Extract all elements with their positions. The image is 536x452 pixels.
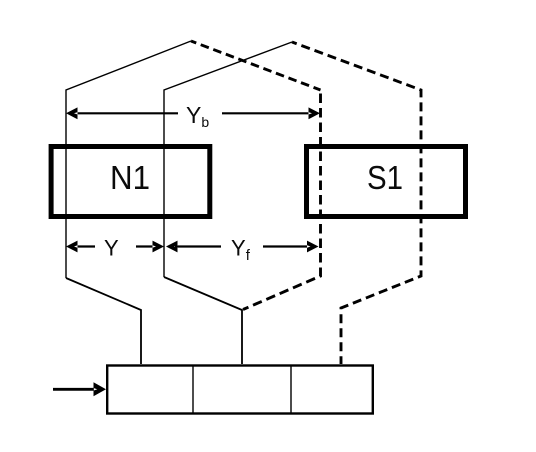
input arrow head	[94, 382, 107, 396]
wire coil2 front lead to commutator	[164, 277, 242, 364]
commutator segment divider 2	[290, 366, 292, 414]
wire coil1 back vertical and bottom diagonal (dashed)	[243, 90, 321, 310]
svg-text:N1: N1	[110, 159, 150, 196]
dimension arrow Y shaft right	[136, 245, 158, 247]
dimension arrow Y right head	[153, 241, 165, 253]
dimension arrow Yf shaft left	[175, 245, 221, 247]
input arrow shaft	[53, 388, 97, 391]
wire coil1 back top diagonal (dashed)	[191, 41, 321, 90]
dimension arrow Yb shaft left	[74, 112, 178, 114]
dimension arrow Yf right head	[307, 241, 319, 253]
pole S1 box	[307, 147, 466, 217]
dimension arrow Y left head	[66, 241, 78, 253]
dimension arrow Yb shaft right	[222, 112, 312, 114]
dimension arrow Y shaft left	[72, 245, 95, 247]
dimension arrow Yf left head	[166, 241, 178, 253]
svg-text:Yf: Yf	[231, 236, 251, 265]
svg-text:Yb: Yb	[186, 102, 209, 130]
wire coil1 front lead to commutator	[66, 278, 141, 364]
svg-text:Y: Y	[104, 236, 119, 261]
pole N1 box	[51, 147, 210, 217]
wire coil2 front upper (solid)	[164, 42, 292, 277]
dimension arrow Yb left head	[66, 107, 78, 119]
input arrow head notch	[94, 388, 98, 390]
commutator segment divider 1	[192, 366, 194, 414]
wire coil1 front upper (solid)	[66, 41, 191, 278]
wire coil2 back (dashed)	[292, 42, 421, 364]
svg-text:S1: S1	[367, 159, 403, 196]
commutator box	[107, 366, 373, 414]
dimension arrow Yb right head	[309, 107, 321, 119]
dimension arrow Yf shaft right	[263, 245, 309, 247]
